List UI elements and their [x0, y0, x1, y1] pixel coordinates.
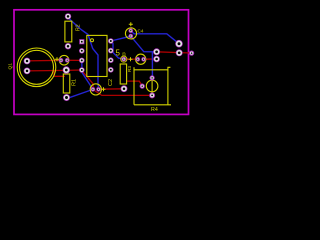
trimmer R4 screw circle [146, 79, 158, 92]
resistor R2 body [65, 21, 72, 42]
capacitor C3 pad 2 [141, 57, 146, 62]
wire red C3 right pad to pad B [144, 58, 157, 60]
trimmer R4 top pad [150, 75, 155, 80]
wire blue U1 pin5 to R3 top pad [111, 41, 124, 59]
capacitor C3 plus marker [129, 57, 133, 61]
wire red pad to C3 left pad [124, 58, 138, 60]
wire red C2 right pad to R3 bottom pad [99, 88, 125, 90]
resistor R1 top pad [63, 66, 70, 73]
wire blue branch to R4 top pad [151, 52, 153, 78]
wire red U1 pin4 to C2 left pad [82, 71, 93, 89]
capacitor C1 outline [59, 55, 69, 65]
op-amp U1 pin 6 pad [108, 48, 114, 54]
wire red pad A to pad D to pad E [157, 52, 192, 53]
trimmer R4 bottom pad [149, 92, 155, 98]
wire blue C4 to pad C [131, 31, 179, 44]
svg-text:R2: R2 [76, 24, 82, 31]
wire blue C4 bottom pad to pad A [131, 36, 157, 52]
capacitor C1 pad 1 [59, 58, 64, 63]
wire red to R4 left pad [127, 81, 143, 86]
label C2 [108, 79, 114, 86]
wire blue R2 top pad to C2 right pad [68, 16, 99, 88]
capacitor C2 pad 1 [91, 87, 96, 92]
resistor R1 body [63, 74, 70, 93]
board outline [14, 10, 189, 115]
pad B [153, 56, 160, 63]
label R3 [127, 66, 132, 72]
label R4 [151, 107, 158, 113]
wire red Q1 pad1 to C1 left pad [27, 59, 61, 62]
op-amp U1 pin 1 square pad [79, 39, 84, 44]
capacitor C1 pad 2 [65, 58, 70, 63]
capacitor C3 outline [136, 54, 146, 64]
wire blue C2 left pad to R1 bottom pad [67, 89, 93, 97]
resistor R3 top pad with ring [121, 56, 127, 62]
label R1 [72, 79, 78, 86]
pad C [175, 40, 183, 48]
capacitor C2 pad 2 [96, 87, 101, 92]
svg-text:C4: C4 [138, 29, 144, 34]
capacitor C2 outline [90, 84, 101, 95]
wire blue U1 pin5 to C4 bottom pad [111, 36, 131, 41]
label 5n [116, 49, 127, 58]
wire red stub node below R1 top [54, 71, 65, 76]
op-amp U1 body [87, 35, 107, 76]
transistor Q1 pad 2 [24, 68, 31, 75]
op-amp U1 pin 4 pad [79, 67, 85, 73]
op-amp U1 pin 7 pad [108, 57, 114, 63]
resistor R3 body [120, 64, 126, 84]
wire red C2 left pad to R4 bottom pad [93, 90, 152, 96]
wire blue U1 pin3 to C2 left pad [82, 60, 93, 89]
capacitor C4 plus marker [129, 22, 133, 26]
transistor Q1 pad 1 [24, 58, 31, 65]
op-amp U1 pin 8 pad [108, 67, 114, 73]
label R2 [76, 24, 82, 31]
capacitor C3 pad 1 [136, 57, 141, 62]
pad E [189, 51, 194, 56]
op-amp U1 pin 2 pad [79, 48, 85, 54]
svg-text:R4: R4 [151, 107, 158, 113]
capacitor C4 pad 2 [129, 34, 134, 39]
svg-text:C2: C2 [108, 79, 114, 86]
svg-text:R1: R1 [72, 79, 78, 86]
op-amp U1 pin1 dot [91, 39, 94, 42]
resistor R1 bottom pad [63, 94, 70, 101]
label C4 [138, 29, 144, 34]
svg-text:5: 5 [116, 49, 121, 58]
trimmer R4 left pad [140, 84, 145, 89]
label Q1 [7, 63, 13, 70]
transistor Q1 outline [17, 48, 56, 87]
pad D [176, 49, 183, 56]
svg-text:Q1: Q1 [7, 63, 13, 70]
resistor R3 bottom pad [121, 85, 128, 92]
capacitor C1 plus marker [55, 57, 59, 61]
capacitor C4 outline [125, 28, 136, 39]
capacitor C2 plus marker [102, 87, 106, 91]
op-amp U1 pin 3 pad [79, 58, 85, 64]
wire red Q1 pad2 to U1 pin4 [27, 69, 82, 72]
svg-text:R3: R3 [127, 66, 132, 72]
op-amp U1 pin 5 pad [108, 38, 114, 44]
wire red C1 right pad to U1 pin3 [67, 59, 82, 61]
trimmer R4 box [134, 67, 171, 105]
resistor R2 top pad [65, 13, 71, 19]
pad A [153, 48, 160, 55]
resistor R2 bottom pad [65, 43, 71, 49]
capacitor C4 pad 1 [129, 28, 134, 33]
